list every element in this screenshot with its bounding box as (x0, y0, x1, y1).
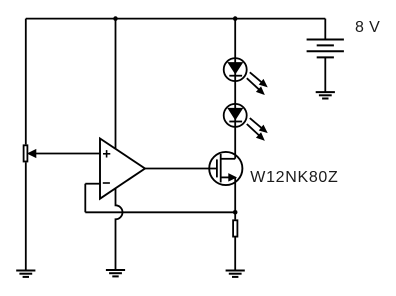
battery V1 (307, 40, 344, 58)
wire top rail to battery (324, 19, 326, 40)
op-amp U1 (100, 139, 145, 199)
wire op-amp output to MOSFET gate (145, 168, 217, 170)
wire potentiometer wiper to op-amp + input (35, 153, 100, 155)
wire battery negative to ground (324, 57, 326, 92)
wire left branch down to potentiometer (25, 19, 27, 145)
wire top rail (26, 18, 326, 20)
node junction source / feedback / resistor (233, 210, 238, 215)
ground (battery) (316, 92, 335, 98)
wire potentiometer bottom to ground (25, 162, 27, 270)
ground (right, source resistor) (226, 271, 245, 277)
wire resistor to ground (234, 238, 236, 271)
LED D1 (224, 58, 266, 93)
ground (left, potentiometer) (16, 271, 35, 277)
transistor Q1 MOSFET (209, 152, 242, 185)
svg-text:W12NK80Z: W12NK80Z (250, 169, 338, 186)
node junction top rail / op-amp supply (113, 16, 118, 21)
wire op-amp V- supply with hop over feedback wire (116, 188, 123, 270)
potentiometer R1 body (24, 145, 36, 161)
wire op-amp inverting input stub (85, 183, 100, 185)
LED D2 (224, 104, 266, 139)
resistor R2 (233, 220, 237, 236)
ground (middle, op-amp supply) (106, 270, 125, 276)
node junction top rail / LED branch (233, 16, 238, 21)
wire feedback horizontal to source node (85, 211, 235, 213)
wire feedback vertical (84, 184, 86, 213)
svg-text:8 V: 8 V (355, 19, 380, 36)
wire source node to resistor (234, 212, 236, 219)
wire op-amp V+ supply (115, 19, 117, 149)
wire MOSFET source vertical (234, 177, 236, 212)
wire LED branch / MOSFET drain vertical (234, 19, 236, 159)
